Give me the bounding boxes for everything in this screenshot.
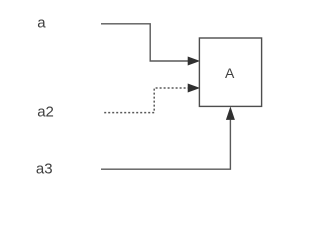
svg-text:a3: a3 (36, 160, 53, 177)
arrowhead wire a3 (227, 108, 235, 119)
svg-text:a: a (37, 15, 46, 32)
wire from a to box A (101, 24, 189, 61)
dotted wire from a2 to box A (104, 88, 188, 113)
wire from a3 to box A bottom (101, 120, 230, 170)
arrowhead wire a (188, 57, 198, 65)
arrowhead wire a2 (188, 84, 198, 92)
svg-text:a2: a2 (37, 103, 54, 120)
block A (199, 38, 261, 106)
svg-text:A: A (225, 65, 235, 81)
